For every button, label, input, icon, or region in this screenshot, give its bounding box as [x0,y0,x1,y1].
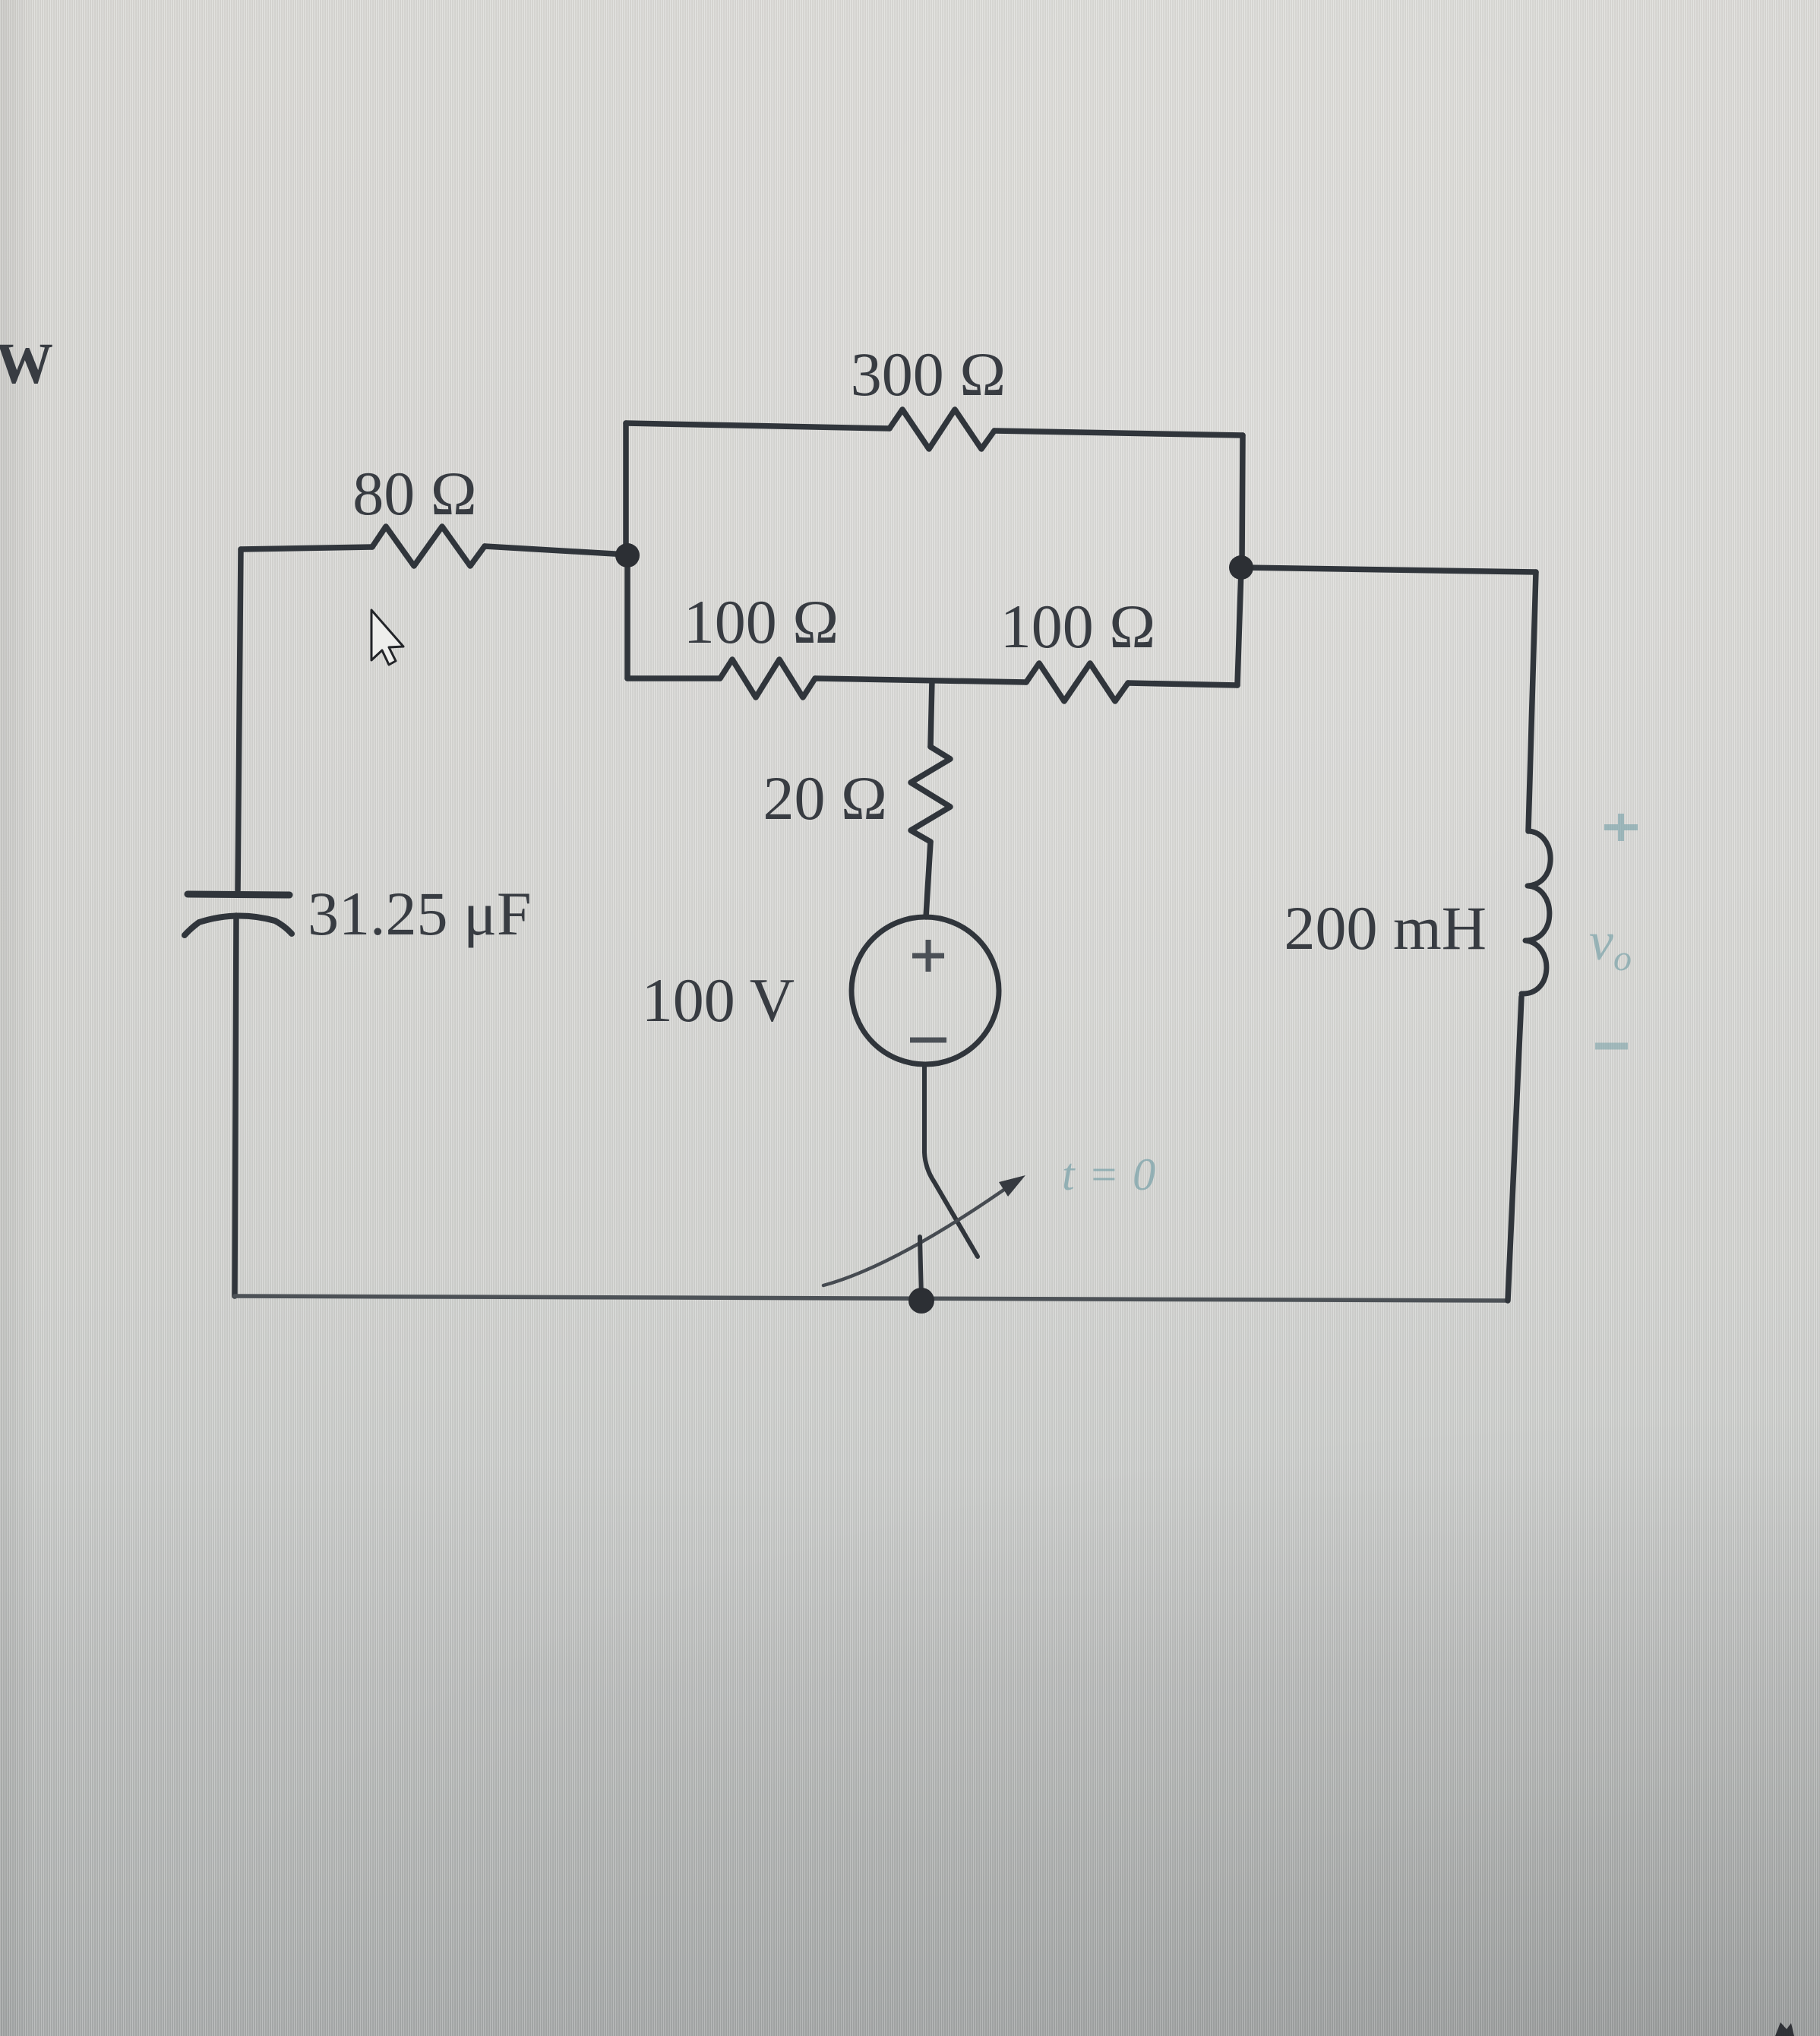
resistor 100ohm right [1026,663,1128,701]
wire inductor top vertical [1528,572,1536,831]
svg-text:31.25 μF: 31.25 μF [308,879,532,948]
svg-text:t = 0: t = 0 [1062,1149,1158,1200]
wire top horizontal left of 300ohm [626,423,889,428]
wire middle center [815,678,1026,682]
svg-text:200 mH: 200 mH [1284,893,1487,963]
node A junction dot [615,543,640,567]
svg-text:20 Ω: 20 Ω [763,763,887,833]
wire bottom-right vertical [1508,997,1521,1301]
mouse cursor [371,610,403,665]
svg-text:100 Ω: 100 Ω [684,587,839,656]
svg-text:100 V: 100 V [642,966,795,1035]
switch bottom stub [920,1237,921,1298]
bottom junction dot [908,1288,934,1314]
wire 80ohm to node A [485,546,627,555]
wire top-left horizontal (80ohm branch) [241,547,372,549]
voltage source plus sign [912,940,944,972]
wire node B to inductor branch [1241,567,1536,572]
wire capacitor to bottom-left corner [235,915,236,1296]
wire node A up [623,423,629,555]
teal plus [1604,814,1638,841]
wire middle up to node B [1237,568,1241,685]
svg-text:80 Ω: 80 Ω [352,459,476,528]
capacitor C curved plate [185,915,292,935]
svg-text:300 Ω: 300 Ω [851,340,1006,409]
resistor 80ohm [372,526,485,566]
wire 20ohm to source [926,842,931,917]
wire 20ohm top [931,681,932,747]
wire bottom horizontal [235,1296,1508,1301]
svg-text:W: W [0,332,53,396]
resistor 20ohm [911,747,950,842]
teal minus [1595,1043,1628,1050]
resistor 100ohm left [720,659,815,697]
wire source bottom to switch contact [924,1064,978,1257]
resistor 300ohm [889,409,994,449]
wire left vertical upper [238,549,241,890]
switch arrowhead [999,1175,1025,1197]
wire middle left [627,675,720,681]
svg-text:100 Ω: 100 Ω [1000,592,1155,661]
wire node B up to top wire [1242,435,1243,567]
voltage source V1 circle [852,917,999,1064]
wire top horizontal right of 300ohm [994,431,1243,435]
capacitor C 31.25uF top plate [188,894,289,895]
inductor L 200mH coil [1521,831,1550,994]
node B junction dot [1229,555,1253,580]
dark mark bottom right edge [1775,2022,1794,2036]
voltage source minus sign [910,1038,946,1043]
switch arc with arrow [823,1182,1015,1285]
wire node A down [624,555,630,678]
wire middle right [1128,683,1237,685]
